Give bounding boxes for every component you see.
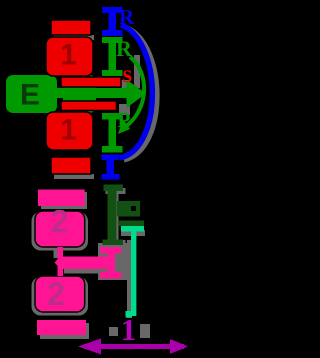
svg-text:E: E [20, 79, 40, 112]
svg-text:P: P [118, 108, 131, 132]
svg-text:1: 1 [60, 114, 77, 147]
svg-text:1: 1 [121, 312, 137, 347]
svg-text:1: 1 [60, 39, 77, 72]
svg-text:2: 2 [51, 204, 69, 240]
svg-text:2: 2 [47, 276, 65, 312]
svg-text:R: R [116, 36, 133, 61]
svg-text:s: s [123, 61, 133, 88]
